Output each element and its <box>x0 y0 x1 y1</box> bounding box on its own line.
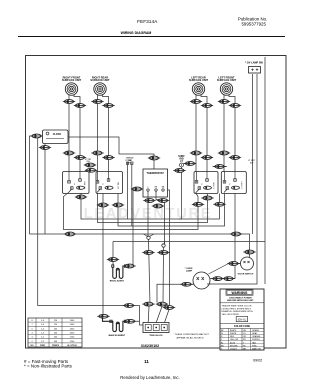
junction1 diag left <box>144 234 148 236</box>
connector <box>84 163 96 167</box>
svg-text:RT RR: RT RR <box>118 181 120 188</box>
bus 3 <box>118 194 225 227</box>
wire ovn lt sw 1 <box>127 164 129 219</box>
wire lamp switch R down to lamp <box>207 74 257 284</box>
infinite switch left front <box>221 172 246 194</box>
wire door switch diag to lamp <box>209 264 229 275</box>
svg-text:TEMPS: TEMPS <box>52 345 60 347</box>
wire clock left rail to bus <box>30 136 43 234</box>
wire thermostat right down to terminal block <box>168 190 170 306</box>
wire from surface unit to switch <box>195 104 197 172</box>
svg-text:LT FRT: LT FRT <box>242 181 244 189</box>
svg-text:LISTED FIRST, STRIPE NEXT.: LISTED FIRST, STRIPE NEXT. <box>222 308 252 310</box>
connector <box>211 277 223 281</box>
svg-text:UL STYLE: UL STYLE <box>67 345 77 347</box>
bus 4 <box>64 193 199 230</box>
svg-text:09/02: 09/02 <box>253 359 262 363</box>
connector <box>142 251 154 255</box>
connector <box>201 156 213 160</box>
wire from surface unit to switch <box>108 108 110 172</box>
oven door switch <box>241 257 254 270</box>
svg-text:VIOLET: VIOLET <box>230 348 238 350</box>
svg-text:TRML BLOCK: TRML BLOCK <box>149 335 163 337</box>
connector <box>243 250 255 254</box>
connector <box>190 151 202 155</box>
bake element <box>103 318 127 331</box>
svg-text:* OVEN: * OVEN <box>185 268 193 270</box>
svg-text:CLOCK: CLOCK <box>53 133 62 136</box>
wire rail corner down <box>134 306 140 322</box>
wire junction2 down to terminal block <box>162 247 165 304</box>
connector bake element right <box>124 319 136 323</box>
connector below thermostat 1 <box>143 199 155 203</box>
svg-text:* OV LAMP SW: * OV LAMP SW <box>245 62 263 65</box>
wire bake to terminal block <box>135 321 144 325</box>
svg-text:COLOR CODE: COLOR CODE <box>234 325 251 328</box>
connector <box>97 203 109 207</box>
oven lamp <box>185 268 210 289</box>
connector terminal block 1 <box>142 302 154 306</box>
svg-text:RED: RED <box>230 336 235 338</box>
junction node 1 <box>147 236 150 239</box>
header rule <box>18 36 285 38</box>
svg-text:BEFORE SERVICING UNIT.: BEFORE SERVICING UNIT. <box>227 300 254 302</box>
svg-text:WARNING: WARNING <box>232 291 248 295</box>
connector <box>227 262 239 266</box>
svg-text:LAMP: LAMP <box>186 270 193 273</box>
wire thermostat left to broil <box>133 189 143 266</box>
svg-text:YELLOW STRIPE.: YELLOW STRIPE. <box>222 314 240 316</box>
connector <box>229 156 241 160</box>
wire thermostat BR down <box>156 191 165 244</box>
connector clock left <box>30 134 42 138</box>
wire from surface unit to switch <box>79 108 81 172</box>
wire ind light down <box>179 167 182 219</box>
connector <box>180 282 192 286</box>
infinite switch right rear <box>96 172 123 194</box>
junction1 diag right <box>150 234 155 236</box>
wire clock to thermostat <box>68 137 154 169</box>
oven light rocker switch <box>126 158 134 165</box>
connector <box>222 277 234 281</box>
connector <box>74 156 86 160</box>
wire clock bottom to bus <box>44 144 46 235</box>
plug of right front <box>74 104 86 108</box>
connector <box>230 232 242 236</box>
svg-text:SURFACE UNIT: SURFACE UNIT <box>217 78 237 82</box>
connector <box>75 195 87 199</box>
connector <box>102 156 114 160</box>
infinite switch left rear <box>194 172 218 194</box>
warning box <box>220 289 264 350</box>
connector broil right <box>123 264 135 268</box>
broil element <box>112 242 127 279</box>
connector terminal block 3 <box>163 306 175 310</box>
svg-text:SW: SW <box>127 163 130 165</box>
wire tb feed 3 <box>165 310 170 323</box>
svg-text:ORANGE: ORANGE <box>252 335 261 338</box>
surface unit left front <box>217 75 237 103</box>
junction2 diag <box>164 242 165 245</box>
surface unit left rear <box>189 75 209 103</box>
data table <box>28 318 82 347</box>
junction node 2 <box>162 244 165 247</box>
connector <box>85 168 97 172</box>
wire switch B to bake element rail <box>102 194 104 315</box>
svg-text:PINK: PINK <box>252 345 257 347</box>
svg-text:Rendered by LeadVenture, Inc.: Rendered by LeadVenture, Inc. <box>120 375 179 380</box>
svg-text:APPEAR ON ALL MODELS.: APPEAR ON ALL MODELS. <box>177 336 205 339</box>
wire left rail to bottom run <box>38 137 125 306</box>
connector <box>213 165 225 169</box>
plug of left front <box>229 104 241 108</box>
terminal block <box>143 323 169 333</box>
connector <box>63 151 75 155</box>
svg-text:PWR: PWR <box>40 345 45 347</box>
connector <box>213 202 225 206</box>
svg-text:EXAMPLE: GREEN WIRE WITH: EXAMPLE: GREEN WIRE WITH <box>222 310 254 313</box>
plug of right rear <box>102 104 114 108</box>
connector below thermostat 2 <box>157 199 169 203</box>
svg-text:* DOOR SWITCH: * DOOR SWITCH <box>237 274 254 276</box>
wire tb feed 1 <box>147 307 150 323</box>
wire ind light right <box>184 163 197 165</box>
svg-text:YELLOW: YELLOW <box>230 339 238 341</box>
plug of right front <box>63 100 75 104</box>
svg-text:FEF314A: FEF314A <box>137 19 158 25</box>
connector <box>218 151 230 155</box>
connector ind light right <box>184 162 196 166</box>
svg-text:BROIL ELMNT: BROIL ELMNT <box>110 281 125 283</box>
connector thermostat feed <box>148 156 160 160</box>
wire switch A-B link 2 <box>85 169 97 171</box>
connector terminal block 2 <box>156 302 168 306</box>
clock <box>43 130 69 144</box>
wire right rail <box>264 57 266 284</box>
surface unit right front <box>62 75 82 103</box>
svg-text:316230102: 316230102 <box>141 344 159 348</box>
wire from surface unit to switch <box>68 104 70 172</box>
bus to right rail <box>113 241 265 243</box>
plug of left rear <box>190 100 202 104</box>
svg-text:LT RR: LT RR <box>213 182 215 189</box>
wire switch C-D link <box>213 166 228 168</box>
svg-text:* = Non-Illustrated Parts: * = Non-Illustrated Parts <box>24 363 73 368</box>
svg-text:WIRING DIAGRAM: WIRING DIAGRAM <box>121 31 152 35</box>
svg-text:THERMOSTAT: THERMOSTAT <box>147 171 165 175</box>
svg-text:* THESE COMPONENTS MAY NOT: * THESE COMPONENTS MAY NOT <box>174 333 210 336</box>
connector <box>112 203 124 207</box>
svg-text:GREEN: GREEN <box>252 330 259 332</box>
connector <box>157 251 169 255</box>
svg-text:RT FRT: RT FRT <box>84 180 86 188</box>
wire tb feed 2 <box>156 307 162 323</box>
surface indicator light <box>178 155 185 167</box>
svg-text:MAROON: MAROON <box>252 347 261 350</box>
svg-text:SURFACE UNIT: SURFACE UNIT <box>189 78 209 82</box>
wire ovn lt sw 2 <box>131 164 133 226</box>
connector on bus <box>64 232 76 236</box>
bus 2 <box>98 194 208 223</box>
svg-text:GRAY: GRAY <box>252 332 258 335</box>
thermostat <box>143 169 168 197</box>
plug of right rear <box>91 100 103 104</box>
svg-text:NO: NO <box>31 345 34 347</box>
connector <box>91 151 103 155</box>
wire switch A-B link <box>84 164 96 166</box>
border frame <box>26 56 287 349</box>
svg-text:BAKE ELEMENT: BAKE ELEMENT <box>109 334 126 337</box>
wire thermostat L down <box>147 191 149 237</box>
bus to door switch <box>30 234 250 257</box>
plug of left front <box>218 100 230 104</box>
wire door switch left <box>229 263 241 265</box>
wire from surface unit to switch <box>223 104 225 172</box>
connector on left rail bottom run <box>123 304 135 308</box>
svg-text:BLACK: BLACK <box>230 329 237 332</box>
wire junction1 down to terminal block <box>149 239 151 304</box>
oven lamp switch <box>245 62 263 74</box>
wire lamp switch L <box>252 74 254 234</box>
svg-text:SURFACE UNIT: SURFACE UNIT <box>62 78 82 82</box>
connector above bake element <box>97 314 109 318</box>
wire from surface unit to switch <box>97 104 99 172</box>
connector below thermostat 3 <box>152 204 164 208</box>
surface unit right rear <box>90 75 110 103</box>
wire oven lamp left down <box>157 284 194 302</box>
wire from surface unit to switch <box>206 108 208 172</box>
svg-text:BLUE: BLUE <box>230 342 236 344</box>
svg-text:5995377925: 5995377925 <box>241 21 266 26</box>
svg-text:(GN-YL): (GN-YL) <box>238 319 247 321</box>
svg-text:TAN: TAN <box>252 341 256 344</box>
infinite switch right front <box>63 172 90 194</box>
svg-text:11: 11 <box>144 359 149 364</box>
svg-text:WHITE: WHITE <box>230 333 237 335</box>
connector <box>201 196 213 200</box>
svg-text:SURFACE UNIT: SURFACE UNIT <box>90 78 110 82</box>
svg-text:W: W <box>221 333 223 335</box>
wire from surface unit to switch <box>234 108 236 172</box>
connector <box>192 203 204 207</box>
svg-text:PURPLE: PURPLE <box>252 339 260 341</box>
svg-text:TRACER WIRE: WIRE COLOR: TRACER WIRE: WIRE COLOR <box>222 305 252 308</box>
connector broil top <box>107 258 119 262</box>
plug of left rear <box>201 104 213 108</box>
svg-text:BROWN: BROWN <box>230 345 238 347</box>
svg-text:L: L <box>147 187 148 189</box>
wire switch D to oven lamp <box>210 194 236 279</box>
bus 1 <box>81 194 220 220</box>
connector below clock <box>39 146 51 150</box>
connector thermostat left <box>131 187 143 191</box>
connector ind light down <box>173 169 185 173</box>
